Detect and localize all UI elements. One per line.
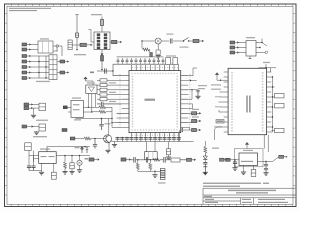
LED D2 (155, 38, 161, 44)
flag RS232 (80, 43, 92, 46)
regulator IC6 body (239, 150, 258, 166)
capacitor C7 (105, 68, 107, 73)
resistor R16 (275, 104, 285, 108)
wire IC4 in2 (68, 111, 71, 113)
transistor T3 below LED (156, 44, 161, 58)
wire power chain (142, 40, 193, 42)
capacitor C27 (164, 157, 165, 163)
frame ruler ticks top and bottom (11, 4, 293, 206)
wire ISP left (89, 30, 95, 43)
crystal Q1 box (166, 58, 171, 65)
flag bm2 (121, 158, 131, 161)
vcc arrow U3 (216, 73, 229, 80)
wire rows to U1 (112, 123, 122, 128)
gnd X3 (31, 115, 36, 118)
relay K1 box (38, 38, 53, 53)
resistor R10 vertical stub (142, 41, 150, 53)
header X4 (33, 124, 46, 131)
connector ISP box (94, 32, 110, 50)
wire U1 right r1 (188, 68, 197, 76)
frame outer border (5, 4, 297, 207)
wires X3 (33, 105, 39, 116)
node r4 (191, 89, 192, 90)
node avcc2 (112, 70, 113, 71)
node chain a (137, 159, 138, 160)
wire K1 left (31, 45, 38, 50)
vcc arrow reset (84, 77, 93, 85)
resistor R4 row (97, 88, 122, 91)
wire CON2 columns (39, 56, 46, 78)
gnd T2 emitter (105, 145, 110, 153)
bottom pin drops (132, 137, 179, 142)
resistor R6 row (97, 98, 122, 101)
flag MISO (112, 40, 122, 43)
bottom pin caps (129, 138, 180, 140)
node power chain (141, 40, 142, 41)
wire collector (108, 119, 110, 135)
bus caps left extension (116, 137, 130, 142)
gnd bus left ground (112, 142, 117, 148)
flag CON2 row2 (57, 60, 69, 63)
U1 top pins (132, 65, 179, 71)
flag VIN (193, 39, 204, 42)
gnd C14 C15 (29, 163, 44, 175)
capacitor C18 (81, 147, 83, 153)
resistor R8 zig (92, 110, 112, 113)
flag reg in (226, 158, 240, 161)
header text top-left (9, 8, 51, 11)
label CON2 (36, 81, 50, 82)
wire vcc bus left drop (113, 64, 122, 76)
resistor R5 row (97, 92, 122, 96)
connector K1 flag (22, 43, 31, 46)
T1 legs (88, 94, 95, 113)
node r2 (190, 80, 191, 81)
resistor R20 box (171, 158, 180, 162)
frame ruler ticks left and right (5, 14, 295, 196)
flag TXD (188, 116, 200, 122)
jack X1 flags (230, 41, 239, 54)
fuse D3 below ISP (101, 56, 104, 70)
resistor R18 drop (136, 160, 139, 172)
U1 pin name strips (133, 76, 178, 128)
capacitor C8 aref (195, 90, 200, 99)
wire psu top rail (47, 147, 90, 152)
capacitor C6 (93, 139, 97, 149)
node 5v b (71, 155, 72, 156)
flag base in (70, 137, 75, 140)
U3 right pins (267, 72, 272, 132)
transistor T2 (104, 135, 112, 145)
nodes U3 bus (272, 76, 273, 127)
wire join column (111, 107, 113, 127)
wire bottom chain (131, 159, 187, 161)
wire U1 right r4 link (188, 90, 198, 99)
buzzer SP1 (160, 169, 165, 180)
vcc bus above U1 (113, 63, 179, 65)
gnd bus below U1 (111, 141, 193, 143)
capacitor C21 (181, 128, 183, 132)
node 5v c (79, 155, 80, 156)
resistor R7 zig (95, 106, 112, 109)
resistor R17 (271, 128, 284, 132)
flag far right chain (220, 158, 228, 161)
capacitor C24 (263, 162, 268, 176)
label ISP VCC (91, 14, 102, 15)
node base (94, 138, 95, 139)
node IC4 b (91, 111, 92, 112)
node serial junction (76, 49, 77, 50)
capacitor C22 (232, 159, 237, 170)
label avcc (90, 72, 94, 74)
wire CON2 rows (31, 56, 49, 78)
resistor R19 zig (153, 158, 160, 161)
connector X3 flags (24, 103, 33, 110)
labels U3 left pins (214, 96, 222, 127)
header CON2 flags (22, 55, 31, 80)
wire K1 right (53, 46, 62, 56)
capacitor C28 (203, 163, 207, 172)
header X3 (39, 103, 46, 110)
U3 pin name strips (232, 72, 263, 132)
flag reg out (279, 155, 287, 158)
node reg out (265, 161, 266, 162)
wire 5v rail (56, 155, 90, 157)
label X3 (36, 120, 48, 121)
labels rxd txd mid (211, 84, 221, 89)
node U3 feed (220, 80, 221, 81)
frame inner border (7, 6, 293, 204)
node avcc (101, 69, 102, 70)
capacitor C14 (27, 166, 31, 171)
node rail a (101, 118, 102, 119)
diode D6 column (203, 153, 207, 162)
capacitor C26 (146, 157, 147, 163)
U1 left pins (117, 76, 130, 128)
node K1 out (56, 45, 59, 48)
wire U1 right r2 (188, 79, 196, 81)
switch X1 c (256, 51, 268, 54)
resistor R21 drop (149, 160, 152, 172)
label bm1 (85, 158, 89, 160)
flag U3 left low (216, 120, 224, 123)
capacitor C4 row (97, 101, 122, 106)
wire U3 left row9 bend (219, 110, 224, 112)
LED D5 (77, 156, 82, 173)
capacitor C19 (84, 146, 88, 153)
flag CON2 row4 (57, 71, 69, 74)
wire chain rail (138, 170, 161, 172)
gnd flag small (62, 129, 67, 132)
node IC4 a (88, 107, 89, 108)
regulator IC5 body (39, 148, 57, 163)
title block (203, 188, 295, 204)
flag RXD (188, 109, 200, 115)
junction dots CON2 (38, 61, 46, 79)
wire ISP right (110, 41, 114, 43)
wire U3 right bus (271, 77, 274, 132)
header X5 psu input (25, 143, 32, 151)
wires U3 left rows (219, 92, 224, 107)
vcc arrow reg (246, 143, 249, 149)
wire U1 right r7 (188, 104, 192, 109)
capacitor C5 (99, 119, 110, 131)
resistor R2 row (97, 79, 122, 82)
node rail b (111, 118, 112, 119)
connector CON6 (145, 142, 158, 160)
label X4 (33, 136, 47, 137)
U1 right pins (181, 76, 189, 128)
wire U3 top right vcc (259, 64, 277, 72)
crystal load cap box (173, 58, 178, 65)
title block text smudges (203, 183, 288, 203)
transistor T1 package (86, 82, 97, 93)
wire bus right tail (180, 127, 192, 141)
label SP1 (158, 182, 166, 183)
wire serial feed (75, 15, 78, 51)
wire SV1 to flag (72, 44, 80, 46)
regulator outer box (235, 149, 264, 167)
wires U3 to regulator (264, 135, 268, 152)
node chain b (150, 159, 151, 160)
vcc arrow bl (75, 147, 84, 151)
wire U3 left bottom curve (215, 127, 224, 140)
label XT (166, 55, 176, 56)
wire avcc row (97, 70, 113, 72)
flag IC4 in (63, 106, 71, 109)
ic U3 body (228, 68, 267, 134)
decoupling caps C row (117, 56, 165, 64)
U1 bottom pins (132, 133, 179, 137)
gnd D6 (203, 172, 208, 175)
wire reg out (258, 157, 279, 162)
wire base in (75, 138, 106, 140)
resistor R14 (62, 156, 67, 175)
pin header SV1 (68, 40, 72, 50)
label r9 r10 (198, 85, 207, 86)
capacitor C20 elco (166, 142, 171, 160)
switch X1 a (256, 39, 267, 47)
label atmega8 (74, 54, 86, 55)
supervisor IC4 box (71, 97, 83, 120)
resistor R15 (275, 94, 285, 98)
wire IC4 right (83, 107, 95, 112)
gnd X4 (34, 131, 39, 135)
flag bm1 (89, 158, 99, 161)
U1 pin numbers outside (120, 68, 190, 136)
fuse F1 (101, 17, 104, 33)
gnd reg (241, 166, 246, 175)
node U3 top (265, 67, 266, 68)
connector X4 flag (22, 125, 33, 128)
capacitor C12 (167, 34, 174, 44)
flag bus out (192, 128, 201, 131)
resistor R11 stub (150, 53, 153, 57)
pin header CON2 (49, 55, 57, 80)
capacitor C15 (31, 166, 35, 171)
flag chain out (187, 158, 196, 161)
wire base rail (76, 118, 113, 120)
wires X5 to IC5 (29, 151, 39, 167)
capacitor C25 (134, 157, 135, 163)
capacitor C23 elco (251, 166, 256, 177)
diode D1 (75, 33, 78, 37)
resistor R3 row (97, 82, 122, 86)
node rail c (111, 122, 112, 123)
label D6 (212, 148, 219, 149)
resistor R9 zig (84, 137, 91, 140)
gnd X1 stub (249, 56, 252, 59)
node 5v a (64, 155, 65, 156)
gnd ISP stub (101, 50, 104, 56)
U3 left pins (224, 72, 228, 132)
switch S1 (180, 38, 190, 48)
gnd chain rail (152, 171, 157, 178)
connector K1 flag 2 (22, 48, 31, 51)
resistor R22 drop (204, 141, 207, 153)
mcu U1 ATmega body (129, 71, 181, 133)
jack X1 body (246, 37, 256, 56)
capacitor C16 elco (52, 163, 57, 179)
capacitor C17 elco (69, 156, 74, 175)
wires X1 (239, 43, 246, 53)
switch X1 b (256, 47, 261, 48)
label U3 vcc (263, 62, 270, 63)
